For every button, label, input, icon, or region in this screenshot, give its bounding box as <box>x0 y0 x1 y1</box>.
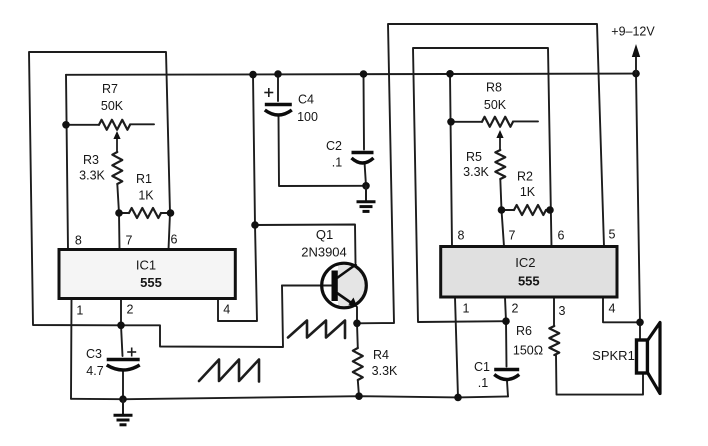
resistor R1 <box>119 212 129 214</box>
waveform sawtooth lower <box>199 360 259 382</box>
junction dots on +V rail <box>249 71 257 79</box>
svg-text:C2: C2 <box>326 139 342 153</box>
svg-text:7: 7 <box>126 234 133 248</box>
svg-text:3.3K: 3.3K <box>463 165 489 179</box>
wire C3 top <box>121 325 123 356</box>
wire C4 top <box>277 74 279 101</box>
wire C1 bottom <box>507 381 508 396</box>
resistor R3 <box>112 152 122 184</box>
wire +V to speaker node <box>636 74 640 323</box>
wire node A to +V rail <box>253 75 255 225</box>
svg-text:1: 1 <box>76 304 83 318</box>
node R8 left junction <box>447 118 455 126</box>
wire IC2 pin 1 to ground rail <box>455 298 458 398</box>
svg-text:.1: .1 <box>478 376 488 390</box>
svg-text:555: 555 <box>140 275 162 290</box>
node C3 bottom junction <box>119 395 127 403</box>
capacitor C3 <box>107 358 140 362</box>
op IC2 555 box <box>441 247 617 298</box>
svg-text:R1: R1 <box>136 172 152 186</box>
transistor Q1 <box>322 263 368 308</box>
wire +V rail <box>66 74 636 75</box>
ground symbol under C3 <box>122 399 124 414</box>
svg-text:.1: .1 <box>332 156 342 170</box>
op IC1 555 box <box>59 250 235 299</box>
svg-text:2N3904: 2N3904 <box>301 245 347 260</box>
svg-text:IC2: IC2 <box>515 255 535 270</box>
svg-text:+9–12V: +9–12V <box>611 25 655 39</box>
svg-text:3.3K: 3.3K <box>79 169 105 183</box>
svg-text:100: 100 <box>297 110 318 124</box>
svg-text:7: 7 <box>509 229 516 243</box>
node R2 right junction <box>546 206 554 214</box>
wire C2 bottom <box>365 162 367 186</box>
wire IC2 pin 2 stub <box>505 298 506 322</box>
wire Q1 emitter to node B <box>356 307 358 323</box>
node IC1 pin2 junction <box>117 322 125 330</box>
wire R6 bottom to speaker bottom <box>556 355 643 395</box>
wire IC1 pin 4 to node A <box>218 225 257 321</box>
svg-text:R5: R5 <box>466 150 482 164</box>
svg-text:2: 2 <box>127 303 134 317</box>
svg-text:Q1: Q1 <box>316 227 333 242</box>
wire +V to IC1 pin 8 <box>66 75 68 250</box>
wire +V to IC2 pin 8 / R8 <box>450 74 452 247</box>
node R1 left junction <box>115 209 123 217</box>
svg-text:1K: 1K <box>520 185 536 199</box>
svg-text:C1: C1 <box>474 360 490 374</box>
wire speaker node to speaker <box>639 322 641 340</box>
svg-text:C3: C3 <box>86 347 102 361</box>
svg-text:5: 5 <box>609 228 616 242</box>
svg-text:3: 3 <box>559 304 566 318</box>
resistor R4 <box>356 323 359 348</box>
node C2 bottom junction <box>362 182 370 190</box>
svg-text:2: 2 <box>512 302 519 316</box>
svg-text:R7: R7 <box>102 82 118 96</box>
svg-text:4.7: 4.7 <box>86 364 103 378</box>
svg-text:R4: R4 <box>373 348 389 362</box>
svg-text:R8: R8 <box>486 81 502 95</box>
node IC2 pin2 junction <box>502 317 510 325</box>
node R4 bottom junction <box>355 392 363 400</box>
svg-text:4: 4 <box>609 302 616 316</box>
svg-text:1K: 1K <box>138 189 154 203</box>
wire IC1 pin2 node to Q1 base (step) <box>121 286 283 348</box>
wire C3 bottom <box>122 371 124 399</box>
wire C4 bottom to C2 bottom node <box>279 116 367 186</box>
wire node A to Q1 collector <box>255 225 356 264</box>
svg-text:555: 555 <box>518 274 540 289</box>
capacitor C2 <box>352 151 374 155</box>
svg-text:R3: R3 <box>83 153 99 167</box>
svg-text:R6: R6 <box>516 324 532 338</box>
wire node B to IC2 pin 5 (outer right loop) <box>357 24 604 323</box>
wire IC1 pin 1 to ground rail <box>70 299 73 399</box>
resistor R6 <box>553 298 555 327</box>
capacitor C1 <box>494 368 519 372</box>
node A junction <box>251 221 259 229</box>
node R7 left junction <box>62 121 70 129</box>
waveform sawtooth upper <box>288 321 345 339</box>
svg-text:50K: 50K <box>484 98 507 112</box>
wire Q1 base <box>282 285 332 287</box>
ground symbol under C2 <box>365 186 367 201</box>
wire IC1 pin 2 stub <box>120 299 122 326</box>
wire C2 top <box>363 74 366 150</box>
wire IC2 pin 7 stub <box>502 210 505 247</box>
wire IC2 pin 4 to speaker node <box>603 298 640 323</box>
svg-text:C4: C4 <box>298 93 314 107</box>
svg-text:SPKR1: SPKR1 <box>592 348 635 363</box>
wire IC1 pin 6 stub <box>169 213 171 250</box>
svg-text:6: 6 <box>171 233 178 247</box>
node ground rail under IC2 pin1 <box>454 394 462 402</box>
wire C1 top <box>505 321 508 366</box>
wire outer loop IC1 pins 2-6 (top) <box>29 52 170 325</box>
svg-text:6: 6 <box>558 229 565 243</box>
svg-text:1: 1 <box>463 302 470 316</box>
svg-text:50K: 50K <box>101 99 124 113</box>
resistor R2 <box>502 209 515 211</box>
node speaker/pin4 junction <box>636 319 644 327</box>
power +9-12V arrow <box>635 54 637 74</box>
svg-text:4: 4 <box>223 303 230 317</box>
capacitor C4 <box>265 103 292 107</box>
svg-text:8: 8 <box>458 229 465 243</box>
node Q1 emitter junction B <box>353 320 361 328</box>
resistor R5 <box>495 150 505 179</box>
svg-text:R2: R2 <box>517 170 533 184</box>
svg-text:3.3K: 3.3K <box>372 364 398 378</box>
potentiometer R7 <box>66 124 99 126</box>
wire ground rail <box>71 396 508 399</box>
wire IC1 pin 7 stub <box>118 213 121 250</box>
node R1 right junction <box>167 209 175 217</box>
svg-text:150Ω: 150Ω <box>513 344 543 358</box>
potentiometer R8 <box>451 121 482 123</box>
svg-text:8: 8 <box>75 234 82 248</box>
node R2 left junction <box>498 206 506 214</box>
svg-text:IC1: IC1 <box>136 258 156 273</box>
speaker SPKR1 <box>637 340 648 373</box>
wire IC2 pins 2-6 tie (inner right loop) <box>413 48 552 322</box>
